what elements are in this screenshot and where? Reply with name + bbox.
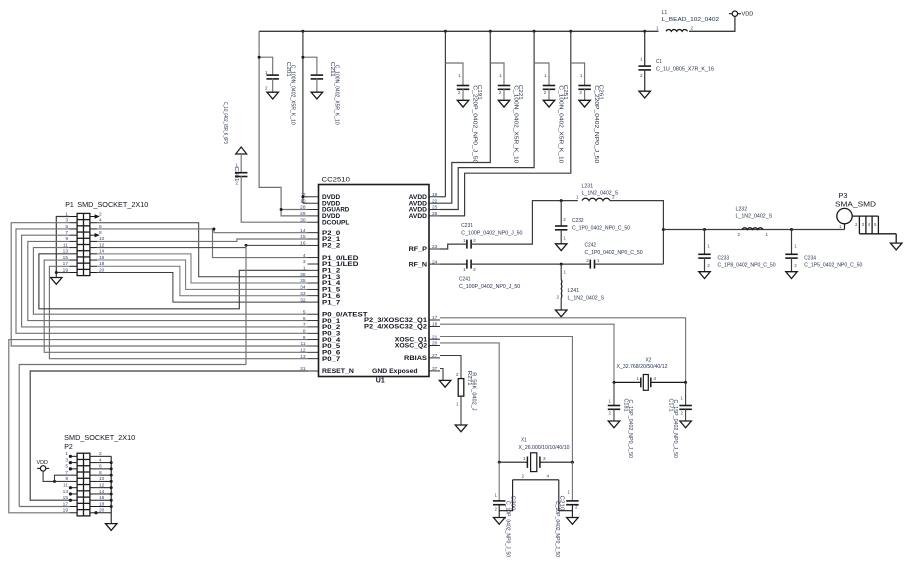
svg-text:1: 1 xyxy=(656,26,659,31)
svg-text:1: 1 xyxy=(564,270,567,275)
svg-text:C_1U_0805_X7R_K_16: C_1U_0805_X7R_K_16 xyxy=(656,66,714,72)
svg-text:1: 1 xyxy=(839,224,842,229)
svg-text:RF_P: RF_P xyxy=(409,246,427,253)
svg-text:C_1P8_0402_NP0_C_50: C_1P8_0402_NP0_C_50 xyxy=(718,263,776,269)
inductor L231 xyxy=(582,198,610,200)
wire C231 to balun top node xyxy=(471,201,578,245)
svg-text:2: 2 xyxy=(612,195,615,200)
wire RF_P to C231 xyxy=(440,244,467,249)
R271 labels xyxy=(466,371,477,411)
connector P2 title xyxy=(64,435,135,451)
svg-text:2: 2 xyxy=(707,263,710,268)
wire C221 to ground xyxy=(503,89,505,100)
wire XOSC_Q1 to X1 right xyxy=(440,337,572,463)
svg-text:L231: L231 xyxy=(582,184,594,190)
svg-text:3: 3 xyxy=(303,259,306,265)
IC refdes U1 xyxy=(376,377,385,384)
wire L1 to VDD terminal xyxy=(689,16,735,31)
svg-text:2: 2 xyxy=(265,86,268,91)
C200 labels xyxy=(495,493,516,558)
svg-text:P2_4/XOSC32_Q2: P2_4/XOSC32_Q2 xyxy=(364,324,428,331)
svg-text:2: 2 xyxy=(473,238,476,243)
svg-text:VDD: VDD xyxy=(742,12,754,18)
wire C1 to ground xyxy=(644,70,646,92)
power VDD symbol top right xyxy=(729,11,753,18)
svg-text:2: 2 xyxy=(794,263,797,268)
svg-text:13: 13 xyxy=(63,489,69,495)
svg-text:C_15P_0402_NP0_J_50: C_15P_0402_NP0_J_50 xyxy=(627,400,633,459)
svg-text:5: 5 xyxy=(65,464,68,470)
svg-text:L232: L232 xyxy=(736,207,748,213)
X1 case ground pins 2 and 4 xyxy=(499,473,572,510)
connector P3 labels xyxy=(835,191,876,208)
connector P2 body xyxy=(77,453,90,516)
svg-text:1: 1 xyxy=(576,195,579,200)
svg-text:1: 1 xyxy=(766,232,769,237)
svg-text:4: 4 xyxy=(547,473,550,478)
C232 labels xyxy=(563,217,630,241)
svg-text:VDD: VDD xyxy=(37,460,48,466)
svg-text:2: 2 xyxy=(737,232,740,237)
svg-text:C_100P_0402_NP0_J_50: C_100P_0402_NP0_J_50 xyxy=(461,230,522,236)
ground below C201 xyxy=(267,92,279,99)
svg-text:1: 1 xyxy=(544,73,547,78)
wire P1 pin12 to IC P2_2 xyxy=(97,244,307,248)
svg-text:1: 1 xyxy=(235,163,238,168)
capacitor C171 xyxy=(679,382,692,421)
svg-text:P1_7: P1_7 xyxy=(322,299,341,306)
wire IC P2_2 node down to cross link xyxy=(245,245,247,364)
svg-text:C_220P_0402_NP0_J_50: C_220P_0402_NP0_J_50 xyxy=(472,85,478,163)
svg-text:C301: C301 xyxy=(233,167,239,182)
junction dots on VDD rail xyxy=(301,30,646,33)
svg-text:2: 2 xyxy=(691,26,694,31)
wire C242 to output vertical xyxy=(595,263,664,265)
capacitor C1 xyxy=(638,66,651,70)
X1 labels xyxy=(519,438,570,451)
capacitor C301 xyxy=(235,173,248,177)
svg-text:C_1P0_0402_NP0_C_50: C_1P0_0402_NP0_C_50 xyxy=(572,226,630,232)
junction dot top node xyxy=(560,199,563,202)
inductor L1 xyxy=(666,29,688,31)
ground below P3 xyxy=(890,243,902,250)
svg-text:1: 1 xyxy=(463,267,466,272)
wire P1 pin9 to IC (col x=27.8) xyxy=(28,241,308,320)
capacitor C261 xyxy=(578,86,591,90)
C231 labels xyxy=(461,223,522,243)
wire R271 to ground xyxy=(460,396,462,425)
svg-text:R_56K_0402_J: R_56K_0402_J xyxy=(471,372,477,411)
C191 labels xyxy=(458,73,482,163)
svg-text:1: 1 xyxy=(456,402,459,407)
wire C241 to C242 xyxy=(471,263,590,265)
wire P1 pin10 to IC P2_1 xyxy=(97,239,307,241)
svg-text:1: 1 xyxy=(640,57,643,62)
wire rail to AVDD pin at y=209.5 xyxy=(440,31,534,209)
svg-text:C_100P_0402_NP0_J_50: C_100P_0402_NP0_J_50 xyxy=(459,284,520,290)
capacitor C232 on top node xyxy=(555,201,568,244)
svg-text:1: 1 xyxy=(580,73,583,78)
junction dot bottom node xyxy=(560,263,563,266)
svg-text:2: 2 xyxy=(579,90,582,95)
svg-text:25: 25 xyxy=(432,205,438,211)
svg-text:XOSC_Q2: XOSC_Q2 xyxy=(395,343,428,350)
svg-text:17: 17 xyxy=(432,315,438,321)
ground below C211 xyxy=(311,92,323,99)
svg-text:2: 2 xyxy=(556,295,559,300)
capacitor C181 xyxy=(608,382,621,421)
connector P2 pin stubs and numbers xyxy=(63,451,105,513)
svg-text:3: 3 xyxy=(65,457,68,463)
svg-text:L_1N2_0402_S: L_1N2_0402_S xyxy=(568,296,605,302)
ground below C251 xyxy=(543,100,555,107)
svg-text:2: 2 xyxy=(456,372,459,377)
svg-text:L241: L241 xyxy=(568,288,580,294)
IC U1 CC2510 body outline xyxy=(319,185,430,377)
svg-text:C231: C231 xyxy=(461,223,473,229)
connector P3 SMA symbol xyxy=(837,208,896,243)
capacitor C191 xyxy=(457,86,470,90)
svg-text:2: 2 xyxy=(473,267,476,272)
L232 labels xyxy=(736,207,773,237)
wire P1 pin16 to IC (col x=185.6) xyxy=(97,260,307,289)
svg-text:GND Exposed: GND Exposed xyxy=(372,368,418,375)
svg-text:2: 2 xyxy=(499,90,502,95)
C201 labels xyxy=(265,62,295,125)
svg-text:C_100N_0402_X5R_K_10: C_100N_0402_X5R_K_10 xyxy=(334,65,340,125)
svg-text:1: 1 xyxy=(499,73,502,78)
svg-text:1: 1 xyxy=(265,70,268,75)
svg-text:1: 1 xyxy=(707,244,710,249)
svg-text:1: 1 xyxy=(463,238,466,243)
X2 labels xyxy=(617,358,668,370)
svg-text:P2_2: P2_2 xyxy=(322,243,341,250)
svg-text:18: 18 xyxy=(432,322,438,328)
svg-text:1: 1 xyxy=(563,236,566,241)
svg-text:SMD_SOCKET_2X10: SMD_SOCKET_2X10 xyxy=(77,202,148,209)
wire output node to P3 xyxy=(663,229,844,231)
svg-text:L1: L1 xyxy=(662,10,668,16)
ground below C261 xyxy=(579,100,591,107)
junction dot X1 left xyxy=(498,461,501,464)
svg-text:22: 22 xyxy=(432,198,438,204)
wire C251 to ground xyxy=(548,89,550,100)
C234 labels xyxy=(794,244,862,269)
wire power arrow to C301 xyxy=(240,154,242,173)
ground below P1 xyxy=(51,278,63,285)
C233 labels xyxy=(707,244,775,269)
svg-text:DCOUPL: DCOUPL xyxy=(322,219,350,226)
svg-text:C_1U_0402_X5R_K_6P3: C_1U_0402_X5R_K_6P3 xyxy=(222,102,228,144)
wire P1 pin18 to IC (col x=179.9) xyxy=(97,266,307,295)
svg-text:SMA_SMD: SMA_SMD xyxy=(835,200,876,209)
svg-text:C241: C241 xyxy=(459,277,471,283)
svg-text:C_100N_0402_X5R_K_10: C_100N_0402_X5R_K_10 xyxy=(558,85,564,163)
wire C201 to ground xyxy=(272,79,274,93)
svg-text:RBIAS: RBIAS xyxy=(404,355,427,362)
svg-text:L_BEAD_102_0402: L_BEAD_102_0402 xyxy=(662,17,720,23)
capacitor C233 shunt xyxy=(698,230,711,272)
wire P1 pin1/pin19 to ground xyxy=(55,217,70,278)
wire P1 pin17 to IC (col x=49.4) xyxy=(49,266,307,358)
connector P1 title xyxy=(65,202,148,209)
svg-text:1: 1 xyxy=(458,73,461,78)
junction dot X1 right xyxy=(571,461,574,464)
IC U1 left pins with numbers and names xyxy=(300,192,368,375)
svg-text:P2: P2 xyxy=(64,444,73,451)
wire rail to AVDD pin 19 xyxy=(440,31,445,197)
svg-text:C232: C232 xyxy=(572,218,584,224)
svg-text:U1: U1 xyxy=(376,377,385,384)
ground below C191 xyxy=(457,100,469,107)
wire IC P0_4 to P2 pin19 xyxy=(9,340,308,513)
ground below C221 xyxy=(498,100,510,107)
wire P1 pin20 to IC (col x=172.9) xyxy=(97,272,307,302)
wire P1 pin13 to IC P1_2 xyxy=(39,254,308,309)
wire cross link to P2 pin17 column xyxy=(19,365,246,507)
arrow on P1 pin 2 xyxy=(95,214,100,218)
svg-text:19: 19 xyxy=(432,192,438,198)
svg-text:C_10P_0402_NP0_J_50: C_10P_0402_NP0_J_50 xyxy=(554,501,560,557)
ground below P2 rail xyxy=(105,524,117,531)
junction dot output node xyxy=(662,228,665,231)
ground below C234 xyxy=(786,272,798,279)
C242 labels xyxy=(585,243,643,264)
capacitor C241 xyxy=(467,260,471,269)
ground below C171 xyxy=(680,421,692,428)
svg-text:CC2510: CC2510 xyxy=(322,177,351,184)
svg-text:AVDD: AVDD xyxy=(409,213,428,220)
wire branch to C221 xyxy=(490,63,504,86)
arrow on P1 pin 8 xyxy=(95,233,100,237)
wire branch to C191 xyxy=(445,63,463,86)
wire rail to AVDD pin at y=215.9 xyxy=(440,31,571,216)
svg-text:C_1P5_0402_NP0_C_50: C_1P5_0402_NP0_C_50 xyxy=(804,263,862,269)
ground below L241 xyxy=(555,310,567,317)
C171 labels xyxy=(667,396,683,459)
junction dot X2 left xyxy=(613,381,616,384)
svg-text:23: 23 xyxy=(432,244,438,250)
ground below C210 xyxy=(567,518,579,525)
crystal X1 xyxy=(499,453,572,472)
wire P1 pin14 to IC (col x=191.0) xyxy=(97,254,307,283)
svg-text:2: 2 xyxy=(563,217,566,222)
C211 labels xyxy=(329,62,340,125)
inductor L232 xyxy=(742,228,763,230)
power arrow above C301 xyxy=(236,147,247,154)
svg-text:P0_7: P0_7 xyxy=(322,356,341,363)
svg-text:X_32.768/20/50/40/12: X_32.768/20/50/40/12 xyxy=(617,364,668,370)
svg-text:C234: C234 xyxy=(804,255,816,261)
IC title CC2510 xyxy=(322,177,351,184)
capacitor C200 xyxy=(493,462,506,517)
C301 labels xyxy=(222,102,239,186)
ground below C1 xyxy=(639,91,651,98)
svg-text:P1: P1 xyxy=(65,202,74,209)
L1 labels xyxy=(656,10,719,31)
wire P1 pin15 to IC (col x=44.2) xyxy=(44,260,307,352)
wire rail to AVDD pin at y=203.2 xyxy=(440,31,490,203)
svg-text:X1: X1 xyxy=(521,438,527,444)
svg-text:SMD_SOCKET_2X10: SMD_SOCKET_2X10 xyxy=(64,435,135,442)
wire C191 to ground xyxy=(462,89,464,100)
svg-text:1: 1 xyxy=(794,244,797,249)
resistor R271 xyxy=(456,372,464,406)
svg-text:2: 2 xyxy=(521,473,524,478)
junction dot X2 right xyxy=(684,381,687,384)
svg-text:C242: C242 xyxy=(585,243,597,249)
wire GND exposed to ground xyxy=(440,369,443,381)
svg-text:1: 1 xyxy=(65,451,68,457)
svg-text:21: 21 xyxy=(432,334,438,340)
wire P2 even pins to ground rail xyxy=(94,456,112,523)
wire branch to C201 xyxy=(258,56,273,75)
svg-text:C_15P_0402_NP0_J_50: C_15P_0402_NP0_J_50 xyxy=(672,400,678,459)
C1 labels xyxy=(640,57,714,79)
wire RESET_N to P2 pin15 xyxy=(30,371,307,500)
wire P2 pin17 stub link xyxy=(19,505,69,507)
C261 labels xyxy=(579,73,603,163)
capacitor C234 shunt xyxy=(785,230,798,272)
wire IC P2_0 branch xyxy=(212,227,307,232)
ground below GND exposed pin xyxy=(439,380,451,387)
junction dot at C234 xyxy=(790,228,793,231)
svg-text:26: 26 xyxy=(432,211,438,217)
svg-text:37: 37 xyxy=(432,366,438,372)
inductor L241 to ground xyxy=(560,264,563,310)
L231 labels xyxy=(576,184,618,200)
capacitor C201 xyxy=(266,75,279,79)
wire branch to C251 xyxy=(534,63,549,86)
svg-text:11: 11 xyxy=(63,482,68,488)
wire P1 pin4 to IC (col x=198.7) xyxy=(97,223,307,277)
svg-text:2: 2 xyxy=(586,258,589,263)
wire main VDD rail xyxy=(259,30,658,32)
wire P1 pin3 to IC (col x=11.2) xyxy=(11,223,307,346)
connector P1 pin stubs and numbers xyxy=(63,211,105,273)
svg-text:4: 4 xyxy=(654,376,657,381)
C210 labels xyxy=(554,490,578,558)
wire rail to C1 xyxy=(644,31,646,66)
svg-text:1: 1 xyxy=(523,456,526,461)
svg-text:20: 20 xyxy=(432,341,438,347)
wire P1 pin6 to IC P1_0 xyxy=(97,229,307,258)
C251 labels xyxy=(544,73,568,163)
svg-text:C233: C233 xyxy=(718,255,730,261)
svg-text:2: 2 xyxy=(640,73,643,78)
svg-text:RF_N: RF_N xyxy=(409,261,428,268)
svg-text:L_1N2_0402_S: L_1N2_0402_S xyxy=(736,214,773,220)
wire rail drop to DGUARD/DVDD (left gray rail) xyxy=(259,31,307,216)
svg-text:C_100N_0402_X5R_K_10: C_100N_0402_X5R_K_10 xyxy=(513,85,519,163)
wire L231 to output node xyxy=(610,201,663,265)
IC U1 right pins with numbers and names xyxy=(364,192,440,375)
capacitor C251 xyxy=(543,86,556,90)
capacitor C242 xyxy=(590,260,594,269)
wire branch to C261 xyxy=(571,63,585,86)
wire VDD branch to P2 pin7 xyxy=(55,475,70,481)
junction dot at C233 xyxy=(703,228,706,231)
wire RBIAS to R271 xyxy=(440,356,461,379)
connector P1 body xyxy=(77,213,90,275)
wire rail drop to DVDD pins 2/10 (black rail) xyxy=(301,31,307,203)
svg-text:1: 1 xyxy=(636,376,639,381)
capacitor C221 xyxy=(498,86,511,90)
svg-text:3: 3 xyxy=(543,456,546,461)
C241 labels xyxy=(459,267,520,290)
wire C211 to ground xyxy=(316,79,318,93)
wire P1 pin7 to IC (col x=21.6) xyxy=(22,235,308,327)
capacitor C231 xyxy=(467,240,471,249)
svg-text:C_100N_0402_X5R_K_10: C_100N_0402_X5R_K_10 xyxy=(289,65,295,125)
svg-text:2: 2 xyxy=(544,90,547,95)
capacitor C210 xyxy=(566,462,579,517)
svg-text:C_10P_0402_NP0_J_50: C_10P_0402_NP0_J_50 xyxy=(505,501,511,557)
wire P1 pin5 to IC (col x=16.0) xyxy=(16,229,308,333)
wire C261 to ground xyxy=(584,89,586,100)
wire C301 to DCOUPL pin 30 xyxy=(241,176,307,222)
wire RF_N to C241 xyxy=(440,263,467,265)
L241 labels xyxy=(556,270,604,302)
wire branch to C211 xyxy=(301,56,317,75)
ground below R271 xyxy=(455,425,467,432)
svg-text:X_26.000/10/10/40/10: X_26.000/10/10/40/10 xyxy=(519,445,570,451)
svg-text:27: 27 xyxy=(432,353,438,359)
svg-text:2: 2 xyxy=(458,90,461,95)
ground below C200 xyxy=(493,518,505,525)
crystal X2 xyxy=(614,375,686,391)
svg-text:RESET_N: RESET_N xyxy=(322,368,354,375)
wire P2_4/XOSC32_Q2 to X2 pin1 xyxy=(440,324,614,382)
C181 labels xyxy=(609,399,634,459)
ground below C181 xyxy=(608,421,620,428)
ground below C233 xyxy=(699,272,711,279)
svg-text:1: 1 xyxy=(597,258,600,263)
svg-text:C_220P_0402_NP0_J_50: C_220P_0402_NP0_J_50 xyxy=(593,85,599,163)
svg-text:C1: C1 xyxy=(656,59,662,65)
ground below C232 xyxy=(555,244,567,251)
C221 labels xyxy=(499,73,523,163)
wire P2_3/XOSC32_Q1 to X2 pin4 xyxy=(440,318,686,383)
capacitor C211 xyxy=(311,75,324,79)
wire VDD to P2 pin9 xyxy=(43,471,69,483)
svg-text:24: 24 xyxy=(432,259,438,265)
svg-text:C_1P0_0402_NP0_C_50: C_1P0_0402_NP0_C_50 xyxy=(585,250,643,256)
power VDD symbol at P2 xyxy=(37,460,50,471)
no-connect dots on P2 left pins xyxy=(69,455,72,502)
wire XOSC_Q2 to X1 left xyxy=(440,343,499,462)
wire P1 pin11 to IC (col x=33.4) xyxy=(33,248,307,315)
svg-text:X2: X2 xyxy=(646,358,652,364)
svg-text:2: 2 xyxy=(235,181,238,186)
